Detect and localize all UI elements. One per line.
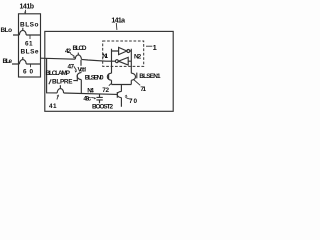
- svg-text:BOOST2: BOOST2: [92, 104, 113, 111]
- svg-text:141b: 141b: [20, 4, 35, 11]
- svg-text:BLe: BLe: [3, 58, 13, 65]
- svg-text:72: 72: [102, 87, 109, 94]
- svg-text:60: 60: [23, 69, 33, 76]
- svg-text:BLCD: BLCD: [73, 45, 87, 52]
- svg-text:48c: 48c: [83, 95, 91, 102]
- svg-text:BLSEN1: BLSEN1: [139, 73, 161, 80]
- svg-text:71: 71: [140, 86, 146, 93]
- svg-text:70: 70: [129, 98, 137, 105]
- svg-text:BLo: BLo: [1, 27, 13, 34]
- svg-text:Vdd: Vdd: [78, 66, 87, 73]
- svg-text:BLSo: BLSo: [20, 21, 39, 28]
- svg-text:61: 61: [25, 41, 33, 48]
- svg-text:BLCLAMP: BLCLAMP: [46, 70, 71, 77]
- svg-text:BLPRE: BLPRE: [52, 79, 73, 86]
- svg-text:N2: N2: [134, 54, 142, 61]
- svg-text:141a: 141a: [111, 17, 125, 24]
- svg-text:N1: N1: [102, 53, 108, 60]
- svg-text:41: 41: [49, 103, 57, 110]
- svg-text:42: 42: [65, 48, 71, 55]
- svg-text:BLSEN0: BLSEN0: [85, 74, 104, 81]
- svg-text:N4: N4: [87, 88, 94, 95]
- svg-text:BLSe: BLSe: [21, 49, 39, 56]
- svg-text:1: 1: [153, 43, 157, 52]
